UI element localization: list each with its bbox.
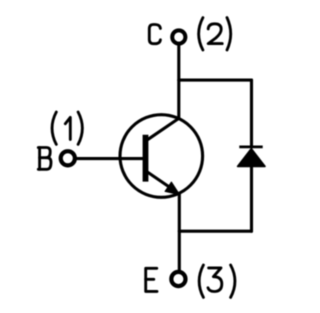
label B <box>38 148 51 170</box>
label C <box>149 25 160 44</box>
wire bottom branch horizontal <box>179 230 251 233</box>
transistor Q1 (emitter stroke) <box>147 172 175 191</box>
diode D1 (anode triangle) <box>238 149 265 167</box>
diode D1 (cathode bar) <box>239 145 262 148</box>
wire diode branch lower vertical <box>250 166 253 231</box>
transistor Q1 (emitter arrowhead) <box>165 182 180 195</box>
terminal E (emitter pad) <box>171 272 185 286</box>
terminal C (collector pad) <box>172 30 185 43</box>
transistor Q1 (envelope circle) <box>120 115 203 198</box>
transistor Q1 (base bar) <box>143 135 149 182</box>
wire collector vertical <box>177 45 180 119</box>
wire emitter vertical <box>178 194 181 270</box>
wire diode branch upper vertical <box>250 80 253 147</box>
terminal B (base pad) <box>61 151 75 165</box>
pin label (2) <box>199 18 231 50</box>
label E <box>146 268 157 291</box>
transistor Q1 (collector stroke) <box>147 118 179 140</box>
wire top branch horizontal <box>179 79 252 82</box>
pin label (3) <box>199 265 235 297</box>
wire base horizontal <box>77 157 143 160</box>
pin label (1) <box>52 112 82 144</box>
